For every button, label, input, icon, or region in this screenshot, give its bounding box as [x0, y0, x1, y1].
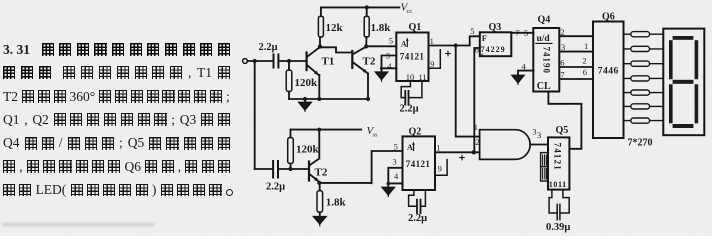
svg-text:2: 2: [560, 27, 564, 37]
svg-text:1.8k: 1.8k: [371, 22, 392, 34]
svg-text:3: 3: [537, 130, 541, 140]
svg-text:120k: 120k: [295, 77, 319, 89]
svg-text:74121: 74121: [406, 159, 431, 169]
svg-text:A: A: [407, 143, 413, 152]
svg-text:1.8k: 1.8k: [326, 197, 347, 209]
svg-text:2: 2: [475, 137, 479, 147]
svg-text:10: 10: [406, 72, 415, 82]
svg-text:74190: 74190: [542, 47, 552, 75]
svg-text:7*270: 7*270: [628, 138, 653, 149]
svg-text:cc: cc: [407, 8, 413, 15]
svg-text:12k: 12k: [326, 22, 344, 34]
svg-text:6: 6: [560, 58, 564, 68]
svg-text:1: 1: [584, 41, 588, 51]
svg-text:3: 3: [392, 157, 396, 167]
svg-text:Q5: Q5: [556, 125, 569, 136]
svg-text:T1: T1: [322, 56, 335, 68]
svg-text:2.2μ: 2.2μ: [259, 42, 278, 53]
svg-text:120k: 120k: [296, 144, 320, 156]
svg-text:2.2μ: 2.2μ: [408, 213, 427, 224]
svg-text:Q6: Q6: [602, 11, 615, 22]
svg-text:F: F: [482, 33, 487, 43]
svg-text:ss: ss: [373, 131, 379, 138]
svg-text:74121: 74121: [400, 52, 425, 62]
svg-text:5: 5: [470, 26, 474, 36]
svg-text:2: 2: [582, 55, 586, 65]
svg-text:1: 1: [430, 36, 434, 46]
svg-text:1: 1: [474, 122, 478, 132]
svg-text:7: 7: [560, 70, 564, 80]
svg-text:CL: CL: [537, 81, 551, 92]
svg-text:3: 3: [532, 127, 536, 137]
svg-text:11: 11: [419, 72, 427, 82]
svg-text:3: 3: [561, 42, 565, 52]
svg-text:6: 6: [583, 67, 587, 77]
svg-text:4: 4: [387, 61, 392, 71]
svg-text:Q1: Q1: [409, 22, 422, 33]
svg-text:u/d: u/d: [537, 34, 551, 44]
svg-text:0.39μ: 0.39μ: [546, 222, 570, 233]
svg-text:Q2: Q2: [409, 127, 422, 138]
svg-text:2.2μ: 2.2μ: [266, 181, 285, 192]
svg-text:T2: T2: [363, 56, 376, 68]
svg-text:74229: 74229: [481, 45, 506, 54]
svg-text:74121: 74121: [553, 143, 563, 172]
svg-text:6: 6: [475, 45, 479, 55]
svg-text:2.2μ: 2.2μ: [400, 104, 419, 115]
svg-text:1011: 1011: [549, 180, 567, 189]
svg-text:3: 3: [386, 51, 390, 61]
svg-text:Q3: Q3: [489, 22, 502, 33]
svg-text:s: s: [481, 50, 484, 59]
svg-text:5: 5: [389, 36, 393, 46]
svg-text:Q4: Q4: [538, 15, 551, 26]
svg-text:A: A: [401, 40, 407, 49]
svg-text:4: 4: [394, 171, 399, 181]
svg-text:T2: T2: [315, 167, 328, 179]
svg-text:5: 5: [394, 142, 398, 152]
svg-text:9: 9: [430, 59, 434, 69]
svg-text:7: 7: [515, 28, 519, 38]
svg-text:1: 1: [436, 142, 440, 152]
svg-text:9: 9: [438, 163, 442, 173]
svg-text:5: 5: [524, 28, 528, 38]
svg-text:7446: 7446: [598, 67, 619, 77]
